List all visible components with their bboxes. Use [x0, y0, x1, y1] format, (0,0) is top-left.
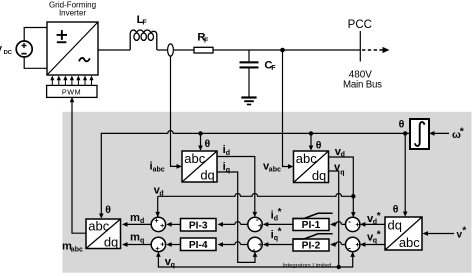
svg-text:*: * — [377, 229, 381, 240]
PI-3 block — [181, 219, 217, 232]
svg-text:PI-1: PI-1 — [302, 220, 321, 231]
svg-text:θ: θ — [316, 140, 322, 152]
sum junction S2 — [151, 237, 165, 251]
svg-text:PCC: PCC — [348, 19, 372, 31]
svg-text:d: d — [226, 150, 230, 157]
wire to PCC — [213, 49, 360, 51]
integrator U5 — [410, 119, 429, 149]
svg-text:-: - — [348, 217, 351, 226]
svg-text:-: - — [253, 245, 256, 254]
wire vd from voltage block down to sum3 — [329, 157, 354, 214]
svg-text:abc: abc — [88, 218, 109, 233]
svg-text:F: F — [142, 20, 147, 27]
wire id from current block to sum5 — [217, 157, 255, 214]
svg-text:-: - — [348, 244, 351, 253]
wire inverter output — [98, 49, 130, 51]
svg-text:q: q — [140, 237, 144, 244]
svg-text:PI-3: PI-3 — [189, 220, 208, 231]
svg-text:*: * — [462, 225, 466, 236]
svg-text:dq: dq — [312, 168, 326, 183]
PI-4 block — [181, 238, 217, 251]
svg-text:abc: abc — [399, 235, 420, 250]
node PCC tick — [359, 31, 361, 62]
svg-text:F: F — [271, 65, 276, 72]
svg-text:θ: θ — [399, 119, 405, 131]
wire PI-1 to sum5 — [266, 223, 293, 225]
node vabc tap — [280, 48, 285, 53]
ground — [241, 98, 256, 105]
svg-text:+: + — [155, 244, 160, 253]
svg-text:abc: abc — [296, 151, 317, 166]
svg-text:+: + — [355, 220, 360, 229]
sum junction S3 — [346, 217, 360, 231]
wire omega* input — [433, 132, 450, 134]
svg-text:V: V — [0, 45, 2, 55]
ac tilde symbol — [79, 58, 90, 61]
svg-text:dq: dq — [388, 218, 402, 233]
wire — [157, 49, 194, 51]
wire v* input — [426, 233, 454, 235]
current sensor i_abc — [168, 44, 174, 56]
svg-text:+: + — [258, 221, 263, 230]
svg-text:dq: dq — [200, 168, 214, 183]
sum junction S5 — [248, 217, 262, 231]
svg-text:+: + — [355, 240, 360, 249]
sum junction S1 — [151, 217, 165, 231]
wire theta distribution — [101, 131, 410, 216]
resistor RF symbol — [194, 47, 213, 53]
wire mabc feedback up to PWM — [72, 100, 86, 234]
capacitor CF symbol — [240, 61, 259, 63]
svg-text:θ: θ — [205, 138, 211, 150]
dq-abc reference block U6 — [385, 217, 422, 250]
theta drop to dq-abc reference block — [404, 133, 406, 213]
wire vd feedforward to sum1 — [158, 194, 354, 218]
wire vq bottom rail to sum2 and sum4 — [158, 255, 352, 267]
PI-1 block with limiter — [293, 219, 329, 231]
control region background — [62, 112, 471, 273]
source VDC — [16, 41, 32, 57]
svg-text:d: d — [341, 152, 345, 159]
svg-text:Main Bus: Main Bus — [343, 80, 382, 91]
wire mq sum2 to modulation block — [126, 244, 152, 246]
svg-text:*: * — [377, 211, 381, 222]
wire sum3 to PI-1 — [334, 222, 346, 225]
theta drop to abc-dq voltage block — [310, 133, 312, 147]
sum junction S4 — [346, 237, 360, 251]
svg-text:m: m — [130, 231, 140, 243]
dashed bus arrow — [362, 49, 384, 51]
svg-text:θ: θ — [105, 204, 111, 216]
wire vd* from reference block to sum3 — [363, 223, 385, 225]
wire vq from voltage block down to bottom rail — [329, 171, 339, 267]
theta drop to abc-dq current block — [200, 133, 202, 147]
dq-abc modulation block U4 — [86, 218, 121, 249]
svg-text:abc: abc — [71, 246, 83, 253]
svg-text:dq: dq — [104, 234, 118, 249]
PI-2 block with limiter — [293, 239, 329, 251]
node vq branch junction — [337, 265, 341, 269]
svg-text:Integrators Limited: Integrators Limited — [283, 263, 332, 269]
wire sum5 to PI-3 — [221, 222, 248, 225]
wire vabc measurement — [283, 50, 291, 167]
inductor LF symbol — [130, 30, 157, 50]
svg-text:*: * — [278, 227, 282, 238]
wire CF tap — [248, 50, 250, 61]
plus-minus symbol — [57, 34, 67, 36]
svg-text:+: + — [154, 216, 159, 225]
wire md sum1 to modulation block — [126, 223, 152, 225]
svg-text:+: + — [160, 221, 165, 230]
inverter U1 — [47, 22, 98, 75]
wire vq* from reference block to sum4 — [363, 244, 385, 246]
node vd branch junction — [351, 194, 355, 198]
sum junction S6 — [248, 237, 262, 251]
svg-text:Inverter: Inverter — [59, 9, 86, 18]
svg-text:PI-2: PI-2 — [302, 241, 321, 252]
wire PI-4 to sum2 — [170, 244, 181, 246]
svg-text:q: q — [340, 170, 344, 177]
svg-text:PWM: PWM — [62, 87, 81, 96]
abc-dq voltage block U3 — [294, 151, 329, 183]
svg-text:abc: abc — [153, 167, 165, 174]
svg-text:*: * — [278, 207, 282, 218]
svg-text:DC: DC — [4, 50, 13, 56]
svg-text:abc: abc — [269, 167, 281, 174]
svg-text:+: + — [258, 240, 263, 249]
wire VDC top — [24, 28, 47, 42]
svg-text:PI-4: PI-4 — [189, 240, 208, 251]
wire PI-2 to sum6 — [266, 244, 293, 246]
svg-text:F: F — [204, 37, 209, 44]
PWM gate arrows — [52, 80, 91, 86]
svg-text:d: d — [159, 190, 163, 197]
wire iq from current block routed to sum6 bottom — [217, 172, 255, 262]
svg-text:m: m — [130, 212, 140, 224]
svg-text:+: + — [160, 240, 165, 249]
svg-text:q: q — [171, 262, 175, 269]
abc-dq current block U2 — [182, 151, 217, 183]
svg-text:abc: abc — [184, 151, 205, 166]
wire PI-3 to sum1 — [170, 223, 181, 225]
wire VDC bottom — [24, 57, 47, 68]
wire sum4 to PI-2 — [334, 242, 346, 245]
wire sum6 to PI-4 — [221, 242, 248, 245]
svg-text:d: d — [140, 218, 144, 225]
PWM block — [47, 85, 97, 97]
wire iabc measurement — [171, 56, 179, 166]
svg-text:q: q — [226, 167, 230, 174]
svg-text:θ: θ — [393, 203, 399, 215]
